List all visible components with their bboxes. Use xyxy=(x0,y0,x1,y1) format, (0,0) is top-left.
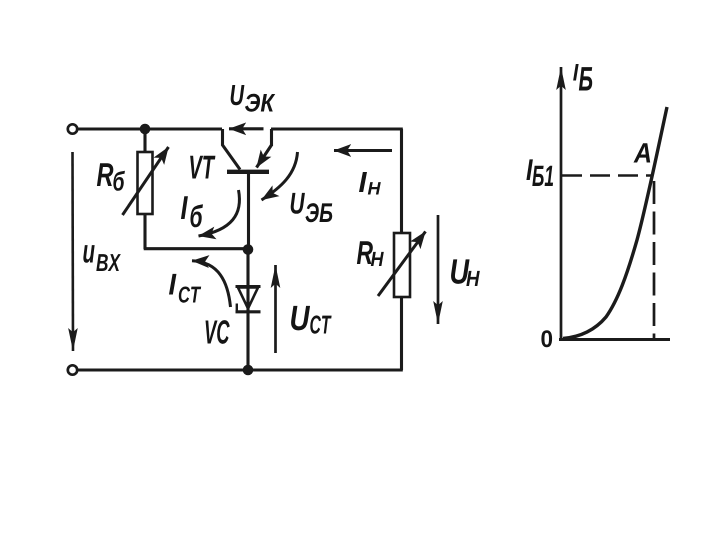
transistor VT base lead xyxy=(247,173,250,250)
graph dashed level I_B1 xyxy=(562,174,652,177)
arrow I_n load current xyxy=(334,149,392,152)
arrow U_EB emitter-base voltage curved xyxy=(262,152,298,200)
wire Rb top lead xyxy=(143,129,146,153)
arrow I_st stabilizer current curved xyxy=(192,261,231,307)
resistor Rb body xyxy=(138,152,153,214)
label I_st subscript xyxy=(179,286,201,302)
arrow u_vx input voltage xyxy=(71,152,74,351)
arrow U_EK on top wire xyxy=(229,127,264,130)
node junction dot bottom xyxy=(243,365,254,376)
label Rb main xyxy=(97,163,113,186)
transistor VT base bar xyxy=(227,170,269,174)
node junction dot at Rb top xyxy=(140,124,151,135)
label 0 origin xyxy=(541,330,552,347)
zener diode VC triangle xyxy=(236,285,261,288)
wire top-left horizontal xyxy=(76,127,222,130)
label U_st main xyxy=(291,306,310,330)
transistor VT collector lead xyxy=(223,129,241,170)
label U_EK subscript xyxy=(245,94,275,112)
label U_n subscript xyxy=(466,271,479,286)
transistor VT emitter lead with arrow xyxy=(270,129,273,146)
resistor Rn variability arrow xyxy=(378,232,426,297)
resistor Rb variability arrow xyxy=(123,147,169,215)
graph X axis xyxy=(559,338,670,341)
label u_vx main xyxy=(83,245,94,263)
label Rn subscript xyxy=(371,252,384,266)
node junction dot base/diode xyxy=(243,244,254,255)
label Rn main xyxy=(357,241,373,264)
label I_b subscript xyxy=(190,204,203,227)
label U_st subscript xyxy=(310,315,331,333)
graph curve xyxy=(563,107,667,339)
label VT xyxy=(190,156,215,179)
label point A xyxy=(633,143,650,162)
label U_EB main xyxy=(291,193,305,214)
arrow U_n load voltage xyxy=(437,215,440,324)
terminal input bottom-left xyxy=(68,365,77,374)
label I_B1 subscript xyxy=(532,166,553,186)
label U_n main xyxy=(451,259,469,283)
label I_n main xyxy=(359,172,367,192)
label I_n subscript xyxy=(368,182,381,194)
terminal input top-left xyxy=(68,124,77,133)
graph Y axis I_B xyxy=(560,67,563,340)
graph dashed vertical at A xyxy=(653,181,656,339)
wire bottom horizontal xyxy=(77,368,403,371)
arrow I_b base current curved xyxy=(199,190,240,236)
wire base branch horizontal xyxy=(144,247,248,250)
wire Rb bottom lead xyxy=(143,214,146,249)
arrow U_st stabilizer voltage xyxy=(274,265,277,353)
label I_B1 main xyxy=(526,159,532,180)
wire top-right horizontal xyxy=(271,127,403,130)
resistor Rn body xyxy=(394,233,410,297)
wire right vertical xyxy=(400,129,403,370)
label I_B axis subscript xyxy=(579,67,592,90)
label VC xyxy=(206,320,230,344)
label I_b main xyxy=(181,196,188,219)
zener diode VC cathode bar with hook xyxy=(236,310,261,313)
label U_EB subscript xyxy=(305,203,332,222)
label I_B axis main xyxy=(573,64,578,81)
wire diode top lead xyxy=(246,249,249,370)
label I_st main xyxy=(169,274,176,295)
label u_vx subscript xyxy=(96,254,121,271)
label Rb subscript xyxy=(113,171,125,191)
label U_EK main xyxy=(231,85,245,105)
